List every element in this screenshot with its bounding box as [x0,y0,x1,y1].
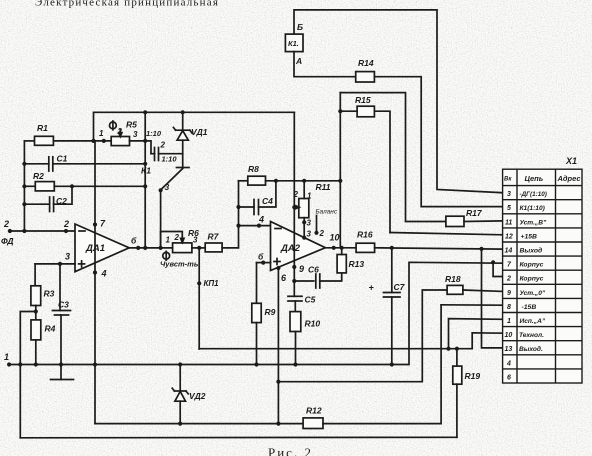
wire R2 to feedback vertical [54,185,145,187]
wire balance net to R17 branch [340,93,446,222]
svg-text:2: 2 [293,190,299,199]
node C6 junction [292,279,296,283]
node DA1 output [136,246,140,250]
svg-text:2: 2 [319,229,325,238]
svg-text:Адрес: Адрес [557,174,582,183]
wire C6 line [294,280,314,282]
capacitor C2 [50,196,68,212]
svg-text:3: 3 [507,191,511,198]
phase symbol sensitivity [163,251,170,260]
svg-text:3: 3 [307,230,312,239]
svg-text:R18: R18 [445,274,461,284]
node 1 [7,362,11,366]
svg-text:Корпус: Корпус [520,276,544,283]
node switch contact 3 [159,188,163,192]
wire R4 to ground rail [35,340,37,365]
node R1-bus junction [91,139,95,143]
svg-text:ФД: ФД [1,236,14,246]
svg-text:9: 9 [507,290,511,297]
wire pin3 down to R3 [34,264,36,286]
capacitor trimmer 1:10 [151,148,183,164]
wire pin 1 row to tech line [449,319,503,349]
wire -15V to pin 8 [441,304,503,306]
svg-text:ДА2: ДА2 [280,243,301,254]
svg-text:+: + [369,283,375,293]
wire R18 to pin 9 row [463,290,503,291]
resistor R19 [453,349,481,438]
wire R10 to ground rail [295,332,297,365]
node C4-R8 junction [274,179,278,183]
phase symbol at R5 [110,121,117,130]
resistor R16 [356,230,375,253]
svg-text:Уст.„0”: Уст.„0” [520,290,546,297]
node K1-output junction [159,246,163,250]
wire technology line KP1 to pin 10 [199,333,502,349]
svg-text:3: 3 [133,130,138,139]
svg-text:5: 5 [507,205,511,212]
svg-text:R1: R1 [37,123,48,133]
svg-text:8: 8 [507,304,511,311]
node R11 wiper junction [292,205,296,209]
node R5 pin3 junction [143,139,147,143]
wire pin6 down to R9 [256,263,258,304]
wire DA2 bottom net down [277,268,279,424]
svg-text:10: 10 [505,332,513,339]
wire R1 to R5 [53,140,111,142]
wire top bus to connector pin 3 [294,10,503,193]
svg-text:R4: R4 [45,324,56,334]
svg-text:Выход.: Выход. [519,345,543,353]
capacitor C6 [308,265,320,289]
wire DA1 supply vertical [94,141,96,424]
wire R8 drop [238,181,240,226]
resistor R1 [35,123,54,145]
node R15-riser junction [338,109,342,113]
node DA2 pin6 bottom [276,266,280,270]
wire R15 left leg [341,110,357,112]
resistor R2 [33,171,54,191]
wire long vertical to C5 [293,112,295,296]
node C3-pin3 junction [58,262,62,266]
wire R13 to output [341,248,343,255]
node DA1 pin4 [93,270,97,274]
svg-text:6: 6 [507,374,511,381]
wire tap to outer left rail [20,312,36,438]
node rail-C7 junction [390,362,394,366]
svg-text:Б: Б [297,22,303,32]
svg-text:1: 1 [4,352,9,362]
wire left rail [23,141,25,231]
svg-text:-ДГ(1:10): -ДГ(1:10) [520,191,547,198]
potentiometer R11 [293,181,338,218]
wire R17 to connector pin 11 [464,220,503,223]
svg-text:2: 2 [506,276,511,283]
svg-text:13: 13 [505,346,513,353]
diode VD1 [173,112,207,167]
svg-text:Уст.„В”: Уст.„В” [520,219,547,226]
wire R8 to balance corner [266,180,341,182]
svg-text:11: 11 [505,219,512,226]
svg-text:Вк: Вк [504,177,512,183]
svg-text:2: 2 [174,233,180,242]
svg-text:3: 3 [307,219,312,228]
svg-text:12: 12 [505,233,513,240]
node DA2 pin6 [261,261,265,265]
svg-text:1: 1 [507,318,511,325]
svg-text:1:10: 1:10 [162,155,178,164]
wire R14 to connector pin 5 [374,77,502,207]
node pin1-tech junction [446,347,450,351]
svg-text:R10: R10 [305,319,321,329]
svg-text:б: б [131,236,137,246]
svg-text:Корпус: Корпус [520,262,544,269]
wire R1 line [24,140,34,142]
svg-text:R5: R5 [126,120,137,130]
svg-text:VД1: VД1 [191,127,208,137]
node R6-R7 junction [197,246,201,250]
node C1-feedback junction [143,162,147,166]
wire DA1 pin3 line [35,263,75,265]
svg-text:б: б [258,252,264,262]
svg-text:4: 4 [258,215,264,225]
node DA2 pin9 [292,265,296,269]
wire R11 pin3 to DA2 [303,218,305,238]
connector X1 table [503,156,582,383]
svg-text:VД2: VД2 [189,391,206,401]
svg-text:А: А [295,56,302,66]
node rail-R2 junction [22,184,26,188]
svg-text:C4: C4 [262,196,273,206]
resistor R8 [248,164,266,185]
node rail-input junction [22,229,26,233]
resistor R18 [445,274,463,294]
capacitor C4 [239,181,276,215]
wire C2 up to R2 line [54,186,72,204]
svg-text:R17: R17 [466,208,483,218]
wire output to pin 13 [482,249,503,348]
diode VD2 [172,365,206,424]
svg-text:R8: R8 [248,164,259,174]
svg-text:10: 10 [330,233,340,243]
wire to R18 [278,290,447,382]
svg-text:2: 2 [160,141,166,150]
svg-text:2: 2 [117,127,123,136]
svg-text:4: 4 [101,269,107,279]
node C7-output junction [390,246,394,250]
svg-text:Электрическая принципиальная: Электрическая принципиальная [35,0,219,9]
svg-text:9: 9 [299,264,304,274]
capacitor C7 polarized [369,248,406,365]
node R19-tech junction [455,347,459,351]
wire R5 pin3 to trimmer [130,141,152,154]
node rail-R9 junction [254,362,258,366]
svg-text:14: 14 [505,248,513,255]
node test point KP1 [197,281,201,285]
resistor R3 [31,286,55,306]
wire feedback vertical x145 [144,112,146,248]
wire R12 to -15V riser [323,305,441,424]
wire K1 to R14 [294,52,356,77]
node 2 [8,229,12,233]
svg-text:C6: C6 [308,265,319,275]
svg-text:Цепь: Цепь [525,174,544,183]
node VD1-bus junction [181,110,185,114]
wire bottom inner rail to R12 [95,423,303,425]
svg-text:1: 1 [166,236,171,245]
node VD2-bottom junction [178,422,182,426]
node input stub [64,229,68,233]
node R18 net junction [276,380,280,384]
wire R6 to R7 [192,247,205,249]
node rail-R4 junction [34,362,38,366]
svg-text:R13: R13 [349,259,365,269]
node R13-output junction [340,246,344,250]
node rail-C2 junction [22,202,26,206]
node R11-top junction [302,179,306,183]
node rail-C3 junction [59,362,63,366]
wire ground rail node1 [9,262,503,364]
svg-text:R14: R14 [358,58,374,68]
wire R2 line [24,185,35,187]
node feedback-output junction [143,246,147,250]
svg-text:C5: C5 [305,295,316,305]
node rail-C1 junction [22,162,26,166]
wire R3 to R4 [35,306,37,320]
svg-text:R15: R15 [355,95,371,105]
resistor R13 [337,255,364,273]
wire C1 to feedback vertical [53,163,145,165]
node R5 pin1 [102,139,106,143]
wire input to DA1 pin2 [10,230,75,232]
wire R15 right leg [374,111,390,232]
wire R9 to ground rail [256,323,258,365]
node DA1 pin7 [93,222,97,226]
svg-text:C3: C3 [58,300,69,310]
node feedback-bus junction [143,110,147,114]
resistor R14 [356,58,375,82]
pin 6 input DA2 [257,262,271,264]
svg-text:R16: R16 [357,230,373,240]
svg-text:-15В: -15В [522,304,537,311]
potentiometer R5 [111,120,138,146]
node C2-R2 junction [70,184,74,188]
svg-text:R2: R2 [33,171,44,181]
wire DA1 output line [129,247,172,249]
contact bar under VD1 [177,167,190,169]
op-amp DA2 [271,222,326,271]
svg-text:К1.: К1. [288,39,299,48]
wire C1 line [24,163,48,165]
svg-text:2: 2 [3,219,9,229]
svg-text:R9: R9 [265,307,276,317]
node R12 rail junction [276,422,280,426]
wire +15V from pin 12 to R15 [390,233,503,235]
wire C6 to R13 [320,273,342,281]
svg-text:3: 3 [65,252,70,262]
svg-text:4: 4 [506,360,511,367]
resistor R10 [290,312,320,332]
capacitor C3 [51,264,74,380]
wire test point KP1 [198,248,200,349]
wire R8 line [239,180,248,182]
svg-text:X1: X1 [565,156,577,166]
svg-text:3: 3 [193,236,198,245]
node rail-left junction [18,362,22,366]
wire mid bus horizontal [94,112,295,141]
wire R7 to DA2 pin4 [222,226,270,248]
svg-text:C1: C1 [57,154,68,164]
node corpus junction [491,260,495,264]
resistor R17 [446,208,483,227]
svg-text:К1: К1 [141,166,151,176]
svg-text:Выход: Выход [520,247,543,255]
capacitor C1 [49,154,68,172]
resistor R9 [252,303,276,322]
svg-text:Исп.„А”: Исп.„А” [520,318,546,325]
svg-text:2: 2 [63,219,69,229]
node balance top line junction [338,179,342,183]
wire bracket pin7 to pin2 [493,262,503,276]
node R11 pin3 upper [302,220,306,224]
svg-text:R12: R12 [306,406,322,416]
svg-text:КП1: КП1 [204,279,220,288]
svg-text:1: 1 [307,192,312,201]
node rail-VD2 junction [178,362,182,366]
node output-pin13 junction [479,247,483,251]
resistor R4 [31,320,56,340]
node DA2 pin4 [257,224,261,228]
svg-text:C7: C7 [394,282,406,292]
node R2-feedback junction [143,184,147,188]
op-amp DA1 [75,224,129,272]
wire R16 to pin 14 [375,248,503,249]
wire C2 line [24,203,49,205]
svg-text:3: 3 [165,182,170,192]
node DA2 pin2 [314,231,318,235]
resistor R15 [355,95,374,117]
potentiometer R6 [161,228,200,253]
relay contact box K1 [285,34,303,52]
node rail-R10 junction [293,362,297,366]
svg-text:R11: R11 [316,182,331,192]
svg-text:1:10: 1:10 [146,129,162,138]
node R11 pin3 lower [302,236,306,240]
capacitor C5 [288,295,316,312]
switch K1 arm [161,169,183,190]
node C4-left junction [236,205,240,209]
svg-text:Рис. 2: Рис. 2 [268,445,313,456]
svg-text:Технол.: Технол. [519,332,544,339]
svg-text:+15В: +15В [521,233,538,240]
node R3-R4 tap [34,309,38,313]
node R8-pin4 junction [236,224,240,228]
pin 2 stub DA2 [316,216,318,233]
resistor R7 [205,232,222,252]
wire balance vertical riser [339,93,341,248]
svg-text:R19: R19 [465,371,481,381]
node DA2 pin10 [332,246,336,250]
resistor R12 [303,406,323,429]
svg-text:Баланс: Баланс [316,209,338,216]
svg-text:R7: R7 [208,232,220,242]
svg-text:1: 1 [99,129,104,138]
wire DA2 output line [325,247,356,249]
svg-text:R3: R3 [44,289,55,299]
wire switch to output node [160,190,162,248]
node rail-DA1 supply junction [93,362,97,366]
wire outer bottom rail [20,436,457,439]
svg-text:К1(1:10): К1(1:10) [520,205,545,212]
svg-text:Чувст-ть: Чувст-ть [160,260,199,269]
